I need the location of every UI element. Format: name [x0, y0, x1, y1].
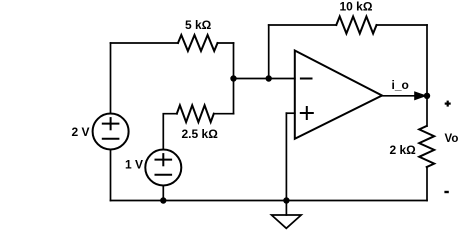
wire from ground rail down to ground symbol	[285, 201, 287, 216]
wire feedback left vertical from node up	[268, 25, 270, 79]
junction node dot at feedback tap	[266, 75, 272, 81]
junction node dot at output / right branch	[424, 93, 430, 99]
wire op-amp output to arrow	[382, 95, 416, 97]
svg-text:Vo: Vo	[445, 133, 459, 145]
minus mark inside 2V source	[103, 138, 119, 140]
plus mark inside 2V source	[103, 118, 119, 129]
svg-text:2.5 kΩ: 2.5 kΩ	[182, 127, 219, 141]
resistor 2 kOhm	[419, 126, 434, 167]
svg-text:5 kΩ: 5 kΩ	[185, 18, 212, 32]
wire left branch vertical from top corner to 2V source	[110, 43, 112, 114]
op-amp U1 triangle	[295, 51, 382, 139]
svg-text:10 kΩ: 10 kΩ	[340, 0, 373, 14]
wire from rail up to 1V source	[162, 185, 164, 200]
wire inverting input node to op-amp minus input	[234, 78, 295, 80]
wire vertical from 5k corner down through node to 2.5k	[233, 43, 235, 114]
wire from 2V source bottom to ground rail	[110, 150, 112, 201]
wire from 2k bottom to ground rail	[426, 167, 428, 201]
wire from 5k right end to corner	[218, 42, 234, 44]
arrowhead of output current i_o	[414, 91, 427, 100]
resistor 2.5 kOhm	[177, 105, 214, 122]
svg-text:1 V: 1 V	[125, 158, 143, 172]
junction node dot at 1V on ground rail	[160, 197, 166, 203]
svg-text:i_o: i_o	[392, 78, 409, 92]
svg-text:2 V: 2 V	[72, 125, 90, 139]
ground symbol	[272, 215, 302, 228]
minus mark inside 1V source	[156, 174, 172, 176]
wire feedback top from corner to 10k	[269, 24, 337, 26]
op-amp minus input symbol	[301, 78, 312, 80]
minus polarity mark of Vo	[444, 191, 448, 193]
wire bottom ground rail	[111, 200, 428, 202]
voltage source V1 2V circle	[93, 114, 129, 150]
wire right vertical from top corner down to 2k resistor	[426, 25, 428, 126]
svg-text:2 kΩ: 2 kΩ	[390, 143, 417, 157]
plus polarity mark of Vo	[445, 101, 451, 107]
op-amp plus input symbol	[301, 107, 313, 119]
wire from 1V source top up and right to 2.5k	[163, 114, 177, 150]
plus mark inside 1V source	[156, 154, 172, 165]
wire feedback top right from 10k to right corner	[377, 24, 428, 26]
wire op-amp plus input stub	[286, 112, 294, 114]
wire from plus input down to ground rail	[285, 113, 287, 200]
junction node dot at ground connection	[283, 197, 289, 203]
voltage source V2 1V circle	[145, 150, 181, 186]
resistor 10 kOhm	[336, 17, 376, 34]
wire top-left horizontal from left branch to 5k resistor	[111, 42, 179, 44]
wire from 2.5k right end to vertical node wire	[214, 113, 234, 115]
junction node dot at inverting input left	[230, 75, 236, 81]
resistor 5 kOhm	[178, 35, 218, 51]
